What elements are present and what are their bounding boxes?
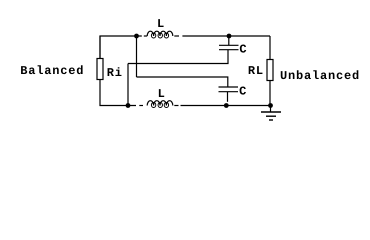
svg-text:L: L [157,17,165,31]
svg-text:Unbalanced: Unbalanced [280,69,360,83]
wire top rail left segment [100,36,142,59]
inductor L2 humps [147,101,173,106]
wire crossover vertical from node A down [136,36,138,77]
capacitor C2 top plate [219,86,239,88]
node junction dot bottom-mid [224,103,229,108]
svg-text:Ri: Ri [107,66,123,80]
resistor Ri box [97,59,103,80]
inductor L2 loop 2 [158,103,162,108]
wire C1 stub to top rail [228,36,230,45]
wire bottom rail dash after L2 [174,105,178,107]
wire bottom rail right segment [181,105,271,107]
ground bar 3 [269,119,273,121]
svg-text:Balanced: Balanced [20,64,84,78]
node junction dot top-right [227,34,232,39]
wire top rail lead dash into L1 [144,35,147,37]
inductor L2 loop 3 [164,103,168,108]
ground bar 2 [266,115,276,117]
node junction dot bottom-left [126,103,131,108]
svg-text:C: C [239,85,247,99]
wire bottom rail left segment [100,80,136,106]
wire top rail dash after L1 [174,35,179,37]
ground lead [270,106,272,113]
node junction dot top-left [134,34,139,39]
resistor RL box [267,60,273,81]
ground bar 1 [261,111,281,113]
wire C2 stub to bottom rail [227,92,229,102]
svg-text:C: C [239,43,247,57]
wire crossover vertical to bottom rail [127,64,129,106]
capacitor C2 bottom plate [219,91,239,93]
wire top rail right segment [182,35,270,37]
wire RL bottom to ground node [269,81,271,106]
svg-text:RL: RL [248,64,264,78]
inductor L1 loop 2 [158,33,162,38]
wire right column to RL top [269,36,271,60]
wire lower middle crossover [137,77,228,87]
inductor L1 humps [147,31,173,36]
inductor L1 loop 3 [164,33,168,38]
wire left column to Ri top [99,36,101,59]
inductor L2 loop 1 [151,103,155,108]
wire bottom rail dash before L2 [139,105,143,107]
svg-text:L: L [158,87,166,101]
capacitor C1 top plate [219,44,239,46]
wire upper middle crossover [128,50,228,64]
inductor L1 loop 1 [151,33,155,38]
capacitor C1 bottom plate [219,49,239,51]
node junction dot ground [268,103,273,108]
